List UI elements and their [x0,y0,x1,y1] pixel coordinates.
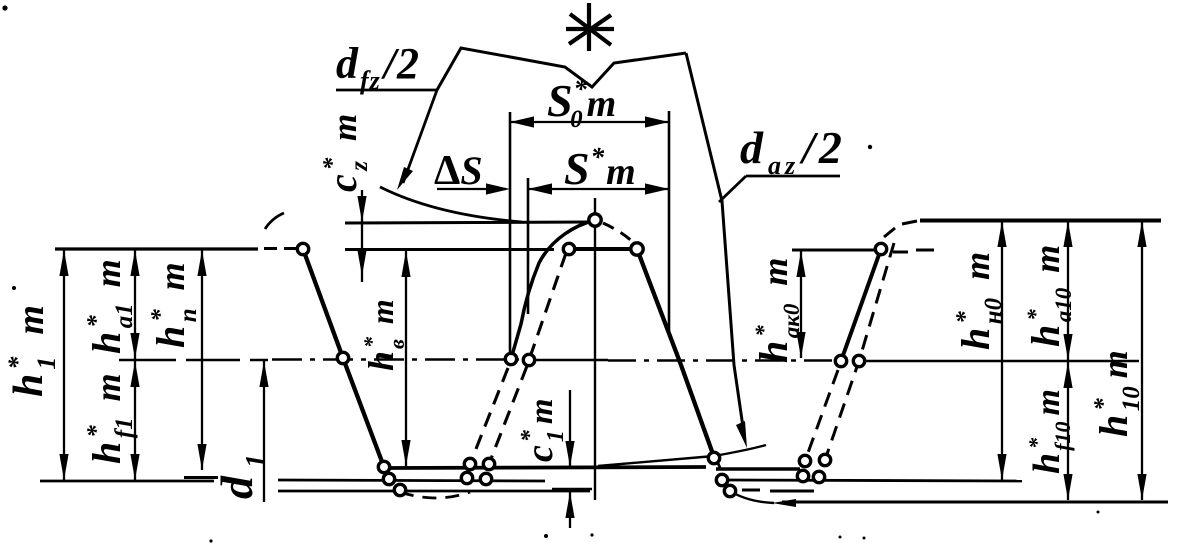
left bottom base line [40,480,214,483]
dfz leader line [403,90,437,183]
dimension right col3 line [1141,221,1143,500]
extension line S right [668,111,671,331]
grouping roof polyline [437,48,686,90]
middle tooth centre line [594,198,596,500]
middle tooth solid left flank upper [511,220,595,359]
wheel root land line [386,467,706,468]
middle tooth solid left flank lower dashed [470,368,508,464]
extension line S left [527,178,530,314]
dfz root arc [380,187,522,222]
dimension h-col3 line [201,250,203,470]
wheel tip reference line left [55,247,296,251]
dimension cz arrows [357,190,366,282]
apex dashed curve right [603,223,636,245]
daz leader main line [686,53,744,434]
gap1 root line upper [278,480,545,481]
right tooth dashed flank [825,243,894,460]
left tooth flank [303,249,384,467]
wheel root arc [598,445,766,466]
dimension right col2 line [1067,221,1069,500]
S dimension line [528,188,669,190]
middle tooth right flank [637,249,714,457]
middle tooth dashed left flank lower [489,366,527,464]
gap1 root line lower [278,490,590,493]
wheel tip reference line right [792,250,934,252]
svg-text:S*0m: S*0m [547,74,616,133]
right tooth solid flank upper [841,249,881,361]
tip arc dash above left tooth [265,213,284,229]
gap2 root land [716,467,800,471]
dfz leader arrowhead [397,167,413,190]
bottom line arrowhead [772,499,796,507]
middle tooth dashed left flank upper [529,253,566,360]
bottom line lead-in arc [730,491,774,503]
deltaS dimension line [437,188,506,190]
pitch centre line [119,360,1139,362]
wheel tip reference line centre [345,248,554,251]
dimension hak0 line [800,251,802,358]
right tooth solid flank lower dashed [805,370,838,461]
dashed tool tip land right gap [742,490,814,491]
S0 dimension line [510,121,669,123]
dimension hw line [405,251,407,466]
extension line S0 left [509,112,512,356]
dimension d1 line [263,361,265,502]
daz leader short segment [719,176,746,202]
star symbol [566,3,614,51]
root level tick bar [184,476,218,479]
dimension ha1/hf1 line [134,250,136,480]
dfz leader underline [336,89,437,92]
daz leader underline [746,175,840,178]
node circles [297,214,886,497]
tool tip reference line right [884,221,1161,238]
middle tooth top land [569,247,637,251]
middle tooth right root dashed bit [717,461,729,488]
gap1 dashed root sag arc [400,492,470,498]
right root line [728,480,1022,481]
dimension c1 arrows [552,390,592,528]
svg-text:ΔS: ΔS [434,148,483,194]
dimension h1*m line [63,250,65,480]
daz leader arrowhead [736,421,747,448]
dimension right col1 line [1001,221,1003,480]
tool tip reference line left [345,222,588,223]
bottom long reference line [782,501,1168,504]
